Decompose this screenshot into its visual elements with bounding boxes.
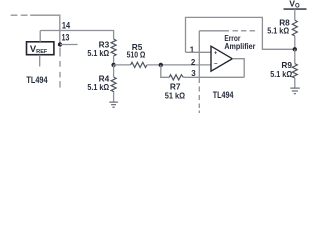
TL494 dashed boundary center: left vertical bbox=[198, 31, 200, 113]
TL494 dashed boundary top-left bbox=[11, 14, 28, 16]
resistor R7 bbox=[169, 75, 183, 80]
resistor R8 bbox=[292, 20, 297, 36]
svg-text:3: 3 bbox=[191, 69, 196, 78]
node R3/R4 junction dot bbox=[111, 63, 115, 67]
svg-text:VO: VO bbox=[289, 0, 300, 10]
svg-text:TL494: TL494 bbox=[213, 90, 234, 100]
svg-text:−: − bbox=[214, 62, 218, 68]
svg-text:TL494: TL494 bbox=[26, 75, 47, 85]
resistor R3 bbox=[111, 39, 116, 56]
svg-text:5.1 kΩ: 5.1 kΩ bbox=[267, 26, 289, 36]
svg-text:Amplifier: Amplifier bbox=[224, 41, 256, 51]
wire pin 13 stub bbox=[60, 44, 78, 46]
wire R7 to feedback (pin 3) bbox=[183, 76, 244, 78]
VREF block box bbox=[27, 42, 54, 55]
op-amp U1 error amplifier bbox=[211, 46, 232, 71]
node R8/R9 junction dot bbox=[293, 47, 297, 51]
node R5/R7 junction dot bbox=[159, 63, 163, 67]
wire junction down to R7 bbox=[161, 65, 169, 77]
svg-text:1: 1 bbox=[190, 45, 195, 54]
ground under R4 bbox=[109, 102, 118, 107]
resistor R5 bbox=[131, 62, 147, 67]
svg-text:2: 2 bbox=[191, 58, 196, 67]
wire op-amp output and feedback to pin 3 bbox=[232, 59, 244, 78]
svg-text:510 Ω: 510 Ω bbox=[127, 50, 146, 60]
wire pin 14 to R3 bbox=[40, 31, 113, 40]
svg-text:5.1 kΩ: 5.1 kΩ bbox=[87, 82, 109, 92]
TL494 dashed boundary center: top edge bbox=[199, 30, 255, 32]
resistor R4 bbox=[113, 65, 115, 77]
Vo rail bar bbox=[284, 8, 307, 10]
TL494 dashed boundary left vertical bbox=[59, 48, 61, 88]
svg-text:14: 14 bbox=[62, 21, 70, 31]
wire pin 1 sense loop to R8/R9 node bbox=[186, 17, 295, 52]
wire Vo to R8 bbox=[294, 9, 296, 20]
ground under R9 bbox=[290, 88, 300, 94]
wire R5 to pin 2 bbox=[147, 64, 211, 66]
svg-text:5.1 kΩ: 5.1 kΩ bbox=[87, 48, 109, 58]
wire R3 to node bbox=[113, 56, 115, 65]
wire node to R5 bbox=[114, 64, 131, 66]
wire VREF top riser to pin 14 bbox=[39, 31, 41, 42]
wire pin13 to pin14 net (top-left corner) bbox=[30, 15, 60, 44]
svg-text:51 kΩ: 51 kΩ bbox=[165, 90, 186, 100]
resistor R9 bbox=[294, 49, 296, 63]
wire VREF bottom stub bbox=[39, 55, 41, 67]
node pin13 junction dot bbox=[58, 42, 62, 46]
svg-text:5.1 kΩ: 5.1 kΩ bbox=[270, 69, 292, 79]
svg-text:13: 13 bbox=[62, 32, 70, 42]
wire pin 1 bbox=[186, 51, 212, 53]
